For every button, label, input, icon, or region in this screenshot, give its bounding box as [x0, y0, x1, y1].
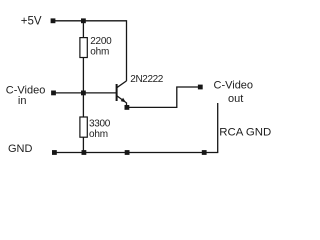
- wire R1 bottom lead to base node: [82, 58, 84, 93]
- svg-text:in: in: [18, 95, 27, 107]
- junction top rail / R1: [81, 18, 86, 23]
- junction ground rail mid: [125, 150, 130, 155]
- terminal C-Video in: [51, 91, 56, 96]
- junction ground rail right: [202, 150, 207, 155]
- value label R1 2200 ohm: [90, 36, 112, 58]
- terminal C-Video out: [198, 85, 203, 90]
- wire top rail +5V to collector corner: [53, 20, 127, 22]
- wire base from input terminal: [54, 92, 117, 94]
- transistor Q1 2N2222 NPN: [117, 81, 127, 106]
- svg-text:RCA GND: RCA GND: [219, 127, 271, 139]
- terminal GND rail left: [52, 150, 57, 155]
- wire ground rail: [54, 152, 218, 154]
- svg-text:ohm: ohm: [90, 47, 109, 58]
- wire emitter to output terminal: [127, 87, 198, 107]
- svg-text:C-Video: C-Video: [214, 79, 254, 91]
- svg-text:+5V: +5V: [21, 15, 42, 27]
- junction base node R1/R2: [81, 91, 86, 96]
- svg-text:2200: 2200: [90, 36, 112, 47]
- resistor R2 3300 ohm body: [80, 117, 87, 137]
- wire R1 top lead: [82, 21, 84, 38]
- value label R2 3300 ohm: [89, 118, 111, 140]
- wire collector feed vertical: [126, 20, 128, 81]
- label C-Video in: [6, 85, 46, 107]
- resistor R1 2200 ohm body: [80, 38, 87, 58]
- svg-text:2N2222: 2N2222: [130, 74, 163, 85]
- wire RCA GND shield vertical: [217, 103, 219, 153]
- svg-text:3300: 3300: [89, 118, 111, 129]
- svg-text:out: out: [228, 93, 243, 105]
- wire R2 top lead: [82, 93, 84, 117]
- svg-text:ohm: ohm: [89, 129, 108, 140]
- terminal +5V: [51, 18, 56, 23]
- junction ground rail / R2: [82, 150, 87, 155]
- wire R2 bottom lead to ground rail: [82, 137, 84, 152]
- junction emitter node: [125, 105, 130, 110]
- label C-Video out: [214, 79, 254, 104]
- svg-text:GND: GND: [8, 143, 33, 155]
